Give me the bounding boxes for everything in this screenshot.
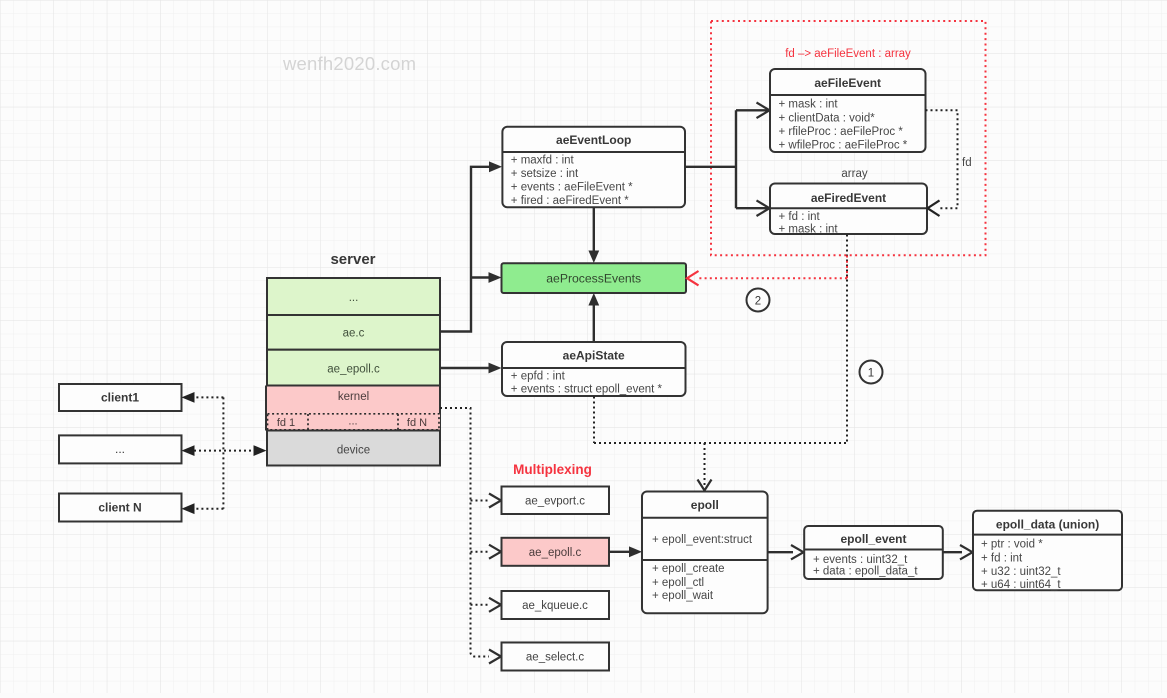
svg-text:fd: fd [962,157,972,169]
svg-text:...: ... [348,416,357,428]
svg-text:fd –> aeFileEvent : array: fd –> aeFileEvent : array [785,48,911,60]
box aeProcessEvents [502,263,687,293]
class box aeFileEvent [770,69,926,152]
wire dotted aeFiredEvent down [846,235,848,444]
arrowhead into ae_epoll.c [489,545,501,559]
svg-text:+ mask : int: + mask : int [779,99,839,111]
svg-text:ae.c: ae.c [343,328,365,340]
svg-text:2: 2 [755,295,761,307]
wire server ae_epoll.c to aeApiState [440,363,502,374]
table server row ... [267,278,440,315]
svg-text:1: 1 [868,367,874,379]
wire dotted down to epoll [698,443,712,491]
svg-text:client N: client N [98,501,141,515]
arrowhead into ae_kqueue.c [489,598,501,612]
svg-text:+ data : epoll_data_t: + data : epoll_data_t [813,566,918,578]
svg-text:ae_select.c: ae_select.c [526,652,584,664]
svg-text:aeFiredEvent: aeFiredEvent [811,191,886,205]
svg-text:+ fd : int: + fd : int [779,211,821,223]
class box epoll_event [804,526,943,579]
arrowhead into ae_select.c [489,650,501,664]
svg-text:Multiplexing: Multiplexing [513,462,592,477]
svg-text:+ rfileProc : aeFileProc *: + rfileProc : aeFileProc * [779,126,904,138]
svg-text:+ u32 : uint32_t: + u32 : uint32_t [981,566,1061,578]
svg-text:epoll: epoll [691,498,719,512]
class box epoll_data (union) [973,511,1122,592]
svg-text:aeFileEvent: aeFileEvent [814,76,881,90]
class box aeApiState [502,342,686,396]
label server [330,251,375,268]
label Multiplexing [513,462,592,477]
class box epoll [642,492,768,614]
wire epoll_event to epoll_data [943,545,973,559]
svg-text:ae_epoll.c: ae_epoll.c [529,547,582,559]
box ae_kqueue.c [502,591,610,619]
svg-text:ae_epoll.c: ae_epoll.c [327,364,380,376]
table server row device [267,431,440,466]
wire arrow to client N [182,503,224,514]
svg-text:array: array [841,168,867,180]
node circled 1 [860,361,883,384]
svg-text:kernel: kernel [338,391,369,403]
svg-text:aeEventLoop: aeEventLoop [556,133,631,147]
svg-text:ae_kqueue.c: ae_kqueue.c [522,600,588,612]
wire aeEventLoop down to aeProcessEvents [588,208,599,264]
svg-text:+ ptr : void *: + ptr : void * [981,538,1043,550]
wire dotted kernel fd to multiplexing boxes [440,408,489,657]
label array [841,168,867,180]
label fd [962,157,972,169]
wire aeEventLoop to aeFileEvent/aeFiredEvent [685,103,770,217]
wire aeApiState up to aeProcessEvents [588,293,599,342]
wire dotted horizontal join [594,442,847,444]
wire arrow to client1 [182,392,224,403]
svg-text:aeApiState: aeApiState [563,349,625,363]
svg-text:+ epoll_ctl: + epoll_ctl [652,577,704,589]
box ae_evport.c [502,487,610,515]
wire double arrow clients-device [182,445,267,456]
box client N [59,494,182,522]
box ae_epoll.c pink [502,538,610,566]
svg-text:+ epoll_event:struct: + epoll_event:struct [652,534,753,546]
red dotted container [711,21,986,255]
svg-text:epoll_data (union): epoll_data (union) [996,517,1099,531]
svg-text:fd N: fd N [407,417,427,429]
svg-text:+ epoll_create: + epoll_create [652,563,725,575]
table server row ae_epoll.c [267,350,440,386]
svg-text:+ fired : aeFiredEvent *: + fired : aeFiredEvent * [511,195,629,207]
svg-text:ae_evport.c: ae_evport.c [525,496,585,508]
svg-text:+ wfileProc : aeFileProc *: + wfileProc : aeFileProc * [779,139,908,151]
svg-text:wenfh2020.com: wenfh2020.com [282,53,416,74]
box client dots [59,435,182,463]
wire clients dotted vertical [222,397,224,508]
svg-text:...: ... [115,442,125,456]
class box aeFiredEvent [770,184,927,236]
svg-text:epoll_event: epoll_event [840,532,906,546]
svg-text:server: server [330,251,375,268]
table server row fd cells [267,413,440,430]
wire ae_epoll.c to epoll [609,546,642,557]
label fd -> aeFileEvent : array [785,48,911,60]
table server row ae.c [267,315,440,350]
svg-text:+ fd : int: + fd : int [981,553,1023,565]
wire fd dotted aeFileEvent to aeFiredEvent [926,110,958,216]
table server row kernel [266,386,440,431]
svg-text:...: ... [349,292,359,304]
svg-text:+ events : struct epoll_event: + events : struct epoll_event * [511,384,663,396]
class box aeEventLoop [502,127,685,208]
box ae_select.c [502,643,610,671]
wire dotted aeApiState down [593,397,595,444]
svg-text:fd 1: fd 1 [277,417,295,429]
arrowhead into ae_evport.c [489,494,501,508]
svg-text:+ mask : int: + mask : int [779,223,839,235]
svg-text:client1: client1 [101,391,139,405]
svg-text:+ epfd : int: + epfd : int [511,371,566,383]
box client1 [59,384,182,411]
svg-text:+ setsize : int: + setsize : int [511,168,579,180]
svg-text:+ epoll_wait: + epoll_wait [652,590,714,602]
wire epoll to epoll_event [768,545,804,559]
svg-text:aeProcessEvents: aeProcessEvents [546,271,641,285]
svg-text:device: device [337,445,370,457]
svg-text:+ u64 : uint64_t: + u64 : uint64_t [981,579,1061,591]
node circled 2 [747,289,770,312]
svg-text:+ events : uint32_t: + events : uint32_t [813,554,908,566]
svg-text:+ maxfd : int: + maxfd : int [511,155,575,167]
wire server to aeEventLoop / aeProcessEvents [440,161,502,331]
svg-text:+ events : aeFileEvent *: + events : aeFileEvent * [511,181,633,193]
red dotted arrow to aeProcessEvents [687,256,847,286]
svg-text:+ clientData : void*: + clientData : void* [779,112,876,124]
